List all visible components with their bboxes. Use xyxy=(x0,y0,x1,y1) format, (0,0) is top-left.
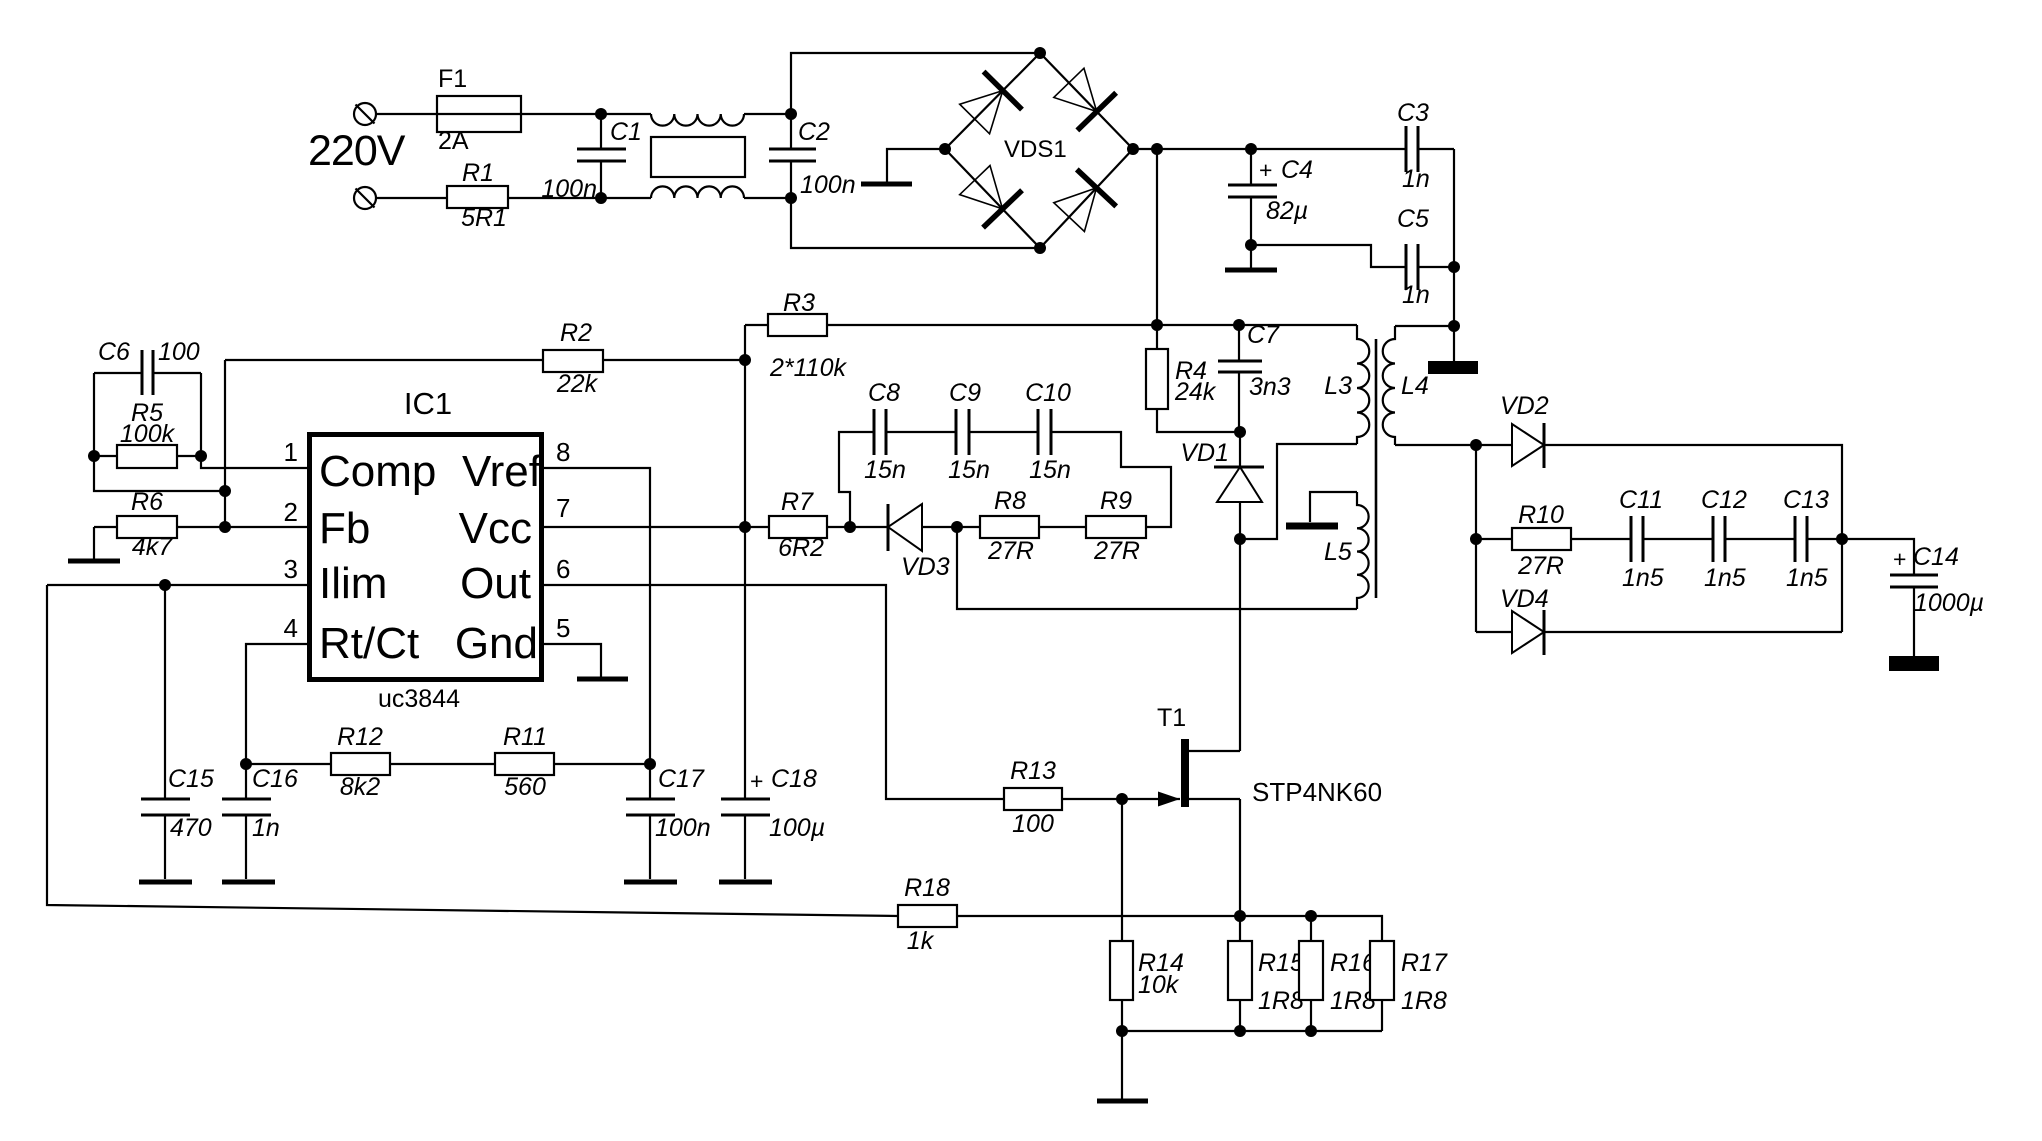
node C7 top xyxy=(1233,319,1245,331)
transformer aux winding L5 xyxy=(1324,492,1369,609)
svg-text:R3: R3 xyxy=(783,289,815,317)
wire pin 3 Ilim xyxy=(47,584,307,586)
common-mode choke winding top xyxy=(651,114,744,126)
wire L4 top to chassis node xyxy=(1395,325,1454,327)
resistor R8 27R xyxy=(957,487,1086,565)
wire C5 junction down to L4 top node xyxy=(1453,267,1455,326)
capacitor C6 100 xyxy=(94,338,201,395)
svg-text:VD4: VD4 xyxy=(1500,585,1549,613)
svg-text:VDS1: VDS1 xyxy=(1004,136,1067,163)
node Fb rail lower xyxy=(219,521,231,533)
svg-text:R13: R13 xyxy=(1010,757,1056,785)
svg-text:R10: R10 xyxy=(1518,501,1564,529)
diode VD2 xyxy=(1476,392,1549,468)
svg-text:27R: 27R xyxy=(1517,552,1564,580)
resistor R10 27R xyxy=(1476,501,1631,580)
svg-text:1R8: 1R8 xyxy=(1258,987,1304,1015)
node bridge top xyxy=(1034,47,1046,59)
svg-text:2: 2 xyxy=(284,497,298,527)
wire C12 to C13 xyxy=(1725,538,1795,540)
node R10 left xyxy=(1470,533,1482,545)
svg-text:C18: C18 xyxy=(771,765,817,793)
wire left rail to Fb junction xyxy=(94,456,225,491)
wire choke to C2 bottom xyxy=(744,197,791,199)
bridge rectifier VDS1 diamond wires xyxy=(945,53,1133,248)
transformer core xyxy=(1375,339,1378,598)
capacitor C1 100n xyxy=(541,114,642,203)
node R5 right xyxy=(195,450,207,462)
wire choke to C2 top xyxy=(744,113,791,115)
diode VD4 xyxy=(1476,585,1842,655)
svg-text:IC1: IC1 xyxy=(404,386,452,421)
svg-text:C4: C4 xyxy=(1281,156,1313,184)
node bridge bottom xyxy=(1034,242,1046,254)
wire pin 4 Rt/Ct xyxy=(246,644,307,764)
wire C8 to C9 xyxy=(886,431,956,433)
capacitor C18 100u electrolytic xyxy=(721,765,825,879)
svg-text:100n: 100n xyxy=(541,175,597,203)
wire Fb vertical rail xyxy=(224,360,226,527)
resistor R6 4k7 xyxy=(94,488,225,561)
svg-text:L5: L5 xyxy=(1324,538,1352,566)
resistor R14 10k xyxy=(1110,799,1184,1031)
wire output node to C14 xyxy=(1842,539,1914,575)
capacitor C15 470 xyxy=(141,585,214,879)
ground at R6 xyxy=(68,527,120,561)
svg-text:1k: 1k xyxy=(907,927,935,955)
resistor R3 2*110k xyxy=(768,289,847,382)
resistor R4 24k xyxy=(1146,325,1240,432)
node C1 bottom xyxy=(595,192,607,204)
svg-text:R1: R1 xyxy=(462,159,494,187)
ground at bridge left node xyxy=(861,149,945,184)
svg-text:15n: 15n xyxy=(864,456,906,484)
svg-text:Gnd: Gnd xyxy=(455,619,538,668)
wire C11 to C12 xyxy=(1643,538,1713,540)
svg-text:100n: 100n xyxy=(655,814,711,842)
node Vref/C17 junction xyxy=(644,758,656,770)
wire C9 to C10 xyxy=(969,431,1038,433)
wire source down to sense node xyxy=(1239,799,1241,916)
common-mode choke core box xyxy=(651,137,745,177)
svg-text:F1: F1 xyxy=(438,65,467,93)
svg-text:15n: 15n xyxy=(1029,456,1071,484)
ground at C17 xyxy=(624,880,677,885)
svg-text:VD1: VD1 xyxy=(1180,439,1229,467)
svg-text:Ilim: Ilim xyxy=(319,559,387,608)
node C2 top xyxy=(785,108,797,120)
wire pin 2 Fb xyxy=(225,526,307,528)
ground at C4 xyxy=(1225,245,1277,270)
wire R7 node up to C8 xyxy=(839,432,874,527)
svg-text:27R: 27R xyxy=(987,537,1034,565)
svg-text:24k: 24k xyxy=(1174,378,1217,406)
resistor R2 22k xyxy=(543,319,603,398)
node C1 top xyxy=(595,108,607,120)
svg-text:R7: R7 xyxy=(781,488,814,516)
svg-text:Vcc: Vcc xyxy=(459,504,532,553)
bridge diode VDS1-c (left to bottom) xyxy=(955,161,1022,227)
resistor R16 1R8 xyxy=(1299,916,1376,1031)
capacitor C8 15n xyxy=(864,379,906,484)
svg-text:STP4NK60: STP4NK60 xyxy=(1252,777,1382,807)
svg-text:560: 560 xyxy=(504,773,546,801)
capacitor C16 1n xyxy=(222,764,298,879)
bridge diode VDS1-d (bottom to right) xyxy=(1049,169,1116,235)
wire VD2 cathode to right rail xyxy=(1544,445,1842,632)
svg-text:100n: 100n xyxy=(800,171,856,199)
svg-text:2*110k: 2*110k xyxy=(769,354,847,382)
svg-text:C11: C11 xyxy=(1619,486,1663,514)
common-mode choke winding bottom xyxy=(651,186,744,198)
capacitor C2 100n xyxy=(769,114,856,199)
capacitor C4 82u electrolytic xyxy=(1228,149,1313,245)
resistor R7 6R2 xyxy=(745,488,850,562)
wire C10 down to R9 right xyxy=(1051,432,1171,527)
svg-text:1n5: 1n5 xyxy=(1622,564,1664,592)
svg-text:C12: C12 xyxy=(1701,486,1747,514)
node Rt/Ct junction xyxy=(240,758,252,770)
svg-text:1000µ: 1000µ xyxy=(1914,589,1984,617)
transformer secondary L4 xyxy=(1383,326,1429,445)
svg-text:R18: R18 xyxy=(904,874,950,902)
capacitor C10 15n xyxy=(1025,379,1071,484)
node bridge left xyxy=(939,143,951,155)
wire bridge DC+ down to R4 xyxy=(1156,149,1158,325)
wire bridge right to C3 xyxy=(1133,148,1406,150)
svg-text:+: + xyxy=(1259,157,1272,183)
svg-text:R15: R15 xyxy=(1258,949,1304,977)
svg-text:C7: C7 xyxy=(1247,321,1280,349)
svg-text:1n: 1n xyxy=(1402,281,1430,309)
ground at C15 xyxy=(139,880,192,885)
svg-text:Out: Out xyxy=(460,559,531,608)
svg-text:R6: R6 xyxy=(131,488,163,516)
capacitor C14 1000u electrolytic xyxy=(1890,543,1984,656)
node output xyxy=(1836,533,1848,545)
svg-text:C14: C14 xyxy=(1913,543,1959,571)
terminal X1 (line input) xyxy=(354,103,376,125)
wire C6 right rail down xyxy=(200,373,202,456)
node R16 top xyxy=(1305,910,1317,922)
svg-text:C3: C3 xyxy=(1397,99,1429,127)
wire R18 right to R17 top xyxy=(957,916,1382,941)
svg-text:C13: C13 xyxy=(1783,486,1829,514)
node DC+ junction xyxy=(1151,143,1163,155)
svg-text:6: 6 xyxy=(556,554,570,584)
svg-text:6R2: 6R2 xyxy=(778,534,824,562)
fuse F1 2A xyxy=(437,65,521,155)
wire R5 right to pin 1 Comp xyxy=(201,456,307,468)
wire Ilim rail down and across to R18 xyxy=(47,585,898,916)
wire C4 bottom to C5 xyxy=(1251,245,1406,267)
wire pin 7 Vcc xyxy=(544,526,745,528)
node rail R15 xyxy=(1234,1025,1246,1037)
svg-text:VD2: VD2 xyxy=(1500,392,1549,420)
svg-text:1R8: 1R8 xyxy=(1401,987,1447,1015)
svg-text:1n5: 1n5 xyxy=(1704,564,1746,592)
wire sense bottom rail xyxy=(1122,1030,1382,1032)
svg-text:8k2: 8k2 xyxy=(340,773,380,801)
wire drain up to VD1 node xyxy=(1239,539,1241,751)
svg-text:5R1: 5R1 xyxy=(461,204,507,232)
node R5 left xyxy=(88,450,100,462)
node C5 right xyxy=(1448,261,1460,273)
wire L5 top to chassis xyxy=(1310,492,1357,522)
svg-text:82µ: 82µ xyxy=(1266,197,1308,225)
svg-text:100µ: 100µ xyxy=(769,814,825,842)
svg-text:3: 3 xyxy=(284,554,298,584)
svg-text:2A: 2A xyxy=(438,127,469,155)
node bridge right xyxy=(1127,143,1139,155)
node pin3 / C15 xyxy=(159,579,171,591)
op-amp controller IC1 uc3844 xyxy=(284,386,571,713)
chassis ground at L5 top xyxy=(1286,523,1338,530)
svg-text:R2: R2 xyxy=(560,319,592,347)
node L4 top xyxy=(1448,320,1460,332)
chassis ground at C14 xyxy=(1889,656,1939,671)
capacitor C9 15n xyxy=(948,379,990,484)
wire bottom input rail xyxy=(376,197,601,199)
wire pin 6 Out to R13 xyxy=(544,585,1004,799)
svg-text:1n5: 1n5 xyxy=(1786,564,1828,592)
svg-text:C16: C16 xyxy=(252,765,298,793)
wire HV rail R3 to L3 top xyxy=(745,324,1357,326)
ground at C16 xyxy=(222,880,275,885)
transistor T1 STP4NK60 xyxy=(1157,704,1382,807)
transformer primary L3 xyxy=(1324,325,1369,444)
svg-text:C17: C17 xyxy=(658,765,705,793)
wire R2 left xyxy=(225,359,543,361)
capacitor C11 1n5 xyxy=(1619,486,1664,592)
svg-text:C6: C6 xyxy=(98,338,130,366)
resistor R18 1k xyxy=(898,874,957,955)
svg-text:220V: 220V xyxy=(308,127,406,175)
node Fb rail upper xyxy=(219,485,231,497)
svg-text:8: 8 xyxy=(556,437,570,467)
node Vcc rail / R2 xyxy=(739,354,751,366)
svg-text:L3: L3 xyxy=(1324,372,1352,400)
resistor R12 8k2 xyxy=(246,723,495,801)
node VD1 anode / drain xyxy=(1234,533,1246,545)
svg-text:T1: T1 xyxy=(1157,704,1186,732)
svg-text:27R: 27R xyxy=(1093,537,1140,565)
ground at pin 5 xyxy=(577,677,628,682)
terminal X2 (neutral input) xyxy=(354,187,376,209)
wire top input rail xyxy=(376,113,601,115)
capacitor C5 1n xyxy=(1397,205,1454,309)
wire Vcc vertical rail to C18 xyxy=(744,325,746,799)
wire C2 bottom to bridge AC2 xyxy=(791,198,1040,248)
node R7 right xyxy=(844,521,856,533)
svg-text:VD3: VD3 xyxy=(901,553,950,581)
svg-text:1n: 1n xyxy=(252,814,280,842)
svg-text:3n3: 3n3 xyxy=(1249,373,1291,401)
svg-text:C1: C1 xyxy=(610,118,642,146)
node source / R15 xyxy=(1234,910,1246,922)
svg-text:470: 470 xyxy=(170,814,212,842)
wire to choke bottom xyxy=(601,197,651,199)
svg-text:C8: C8 xyxy=(868,379,900,407)
resistor R13 100 xyxy=(1004,757,1180,838)
svg-text:100k: 100k xyxy=(120,420,176,448)
capacitor C12 1n5 xyxy=(1701,486,1747,592)
ground at sense rail xyxy=(1097,1031,1148,1101)
node rail R14 xyxy=(1116,1025,1128,1037)
bridge diode VDS1-b (top to right) xyxy=(1049,64,1116,130)
node R4 top xyxy=(1151,319,1163,331)
svg-text:R12: R12 xyxy=(337,723,383,751)
wire pin 8 Vref down to R11/C17 xyxy=(544,468,650,764)
svg-text:C9: C9 xyxy=(949,379,981,407)
node C7 bottom / VD1 cathode xyxy=(1234,426,1246,438)
bridge diode VDS1-a (left to top) xyxy=(955,72,1022,138)
svg-text:100: 100 xyxy=(158,338,200,366)
wire output left rail xyxy=(1475,445,1477,632)
wire L5 bottom to VD3 node xyxy=(957,527,1357,609)
svg-text:4: 4 xyxy=(284,613,298,643)
node rail R16 xyxy=(1305,1025,1317,1037)
capacitor C13 1n5 xyxy=(1783,486,1842,592)
svg-text:+: + xyxy=(1893,546,1906,572)
resistor R9 27R xyxy=(1086,487,1146,565)
svg-text:Comp: Comp xyxy=(319,447,436,496)
resistor R15 1R8 xyxy=(1228,916,1304,1031)
svg-text:5: 5 xyxy=(556,613,570,643)
svg-text:15n: 15n xyxy=(948,456,990,484)
node Vcc pin7 xyxy=(739,521,751,533)
capacitor C17 100n xyxy=(626,764,711,879)
node C4 top xyxy=(1245,143,1257,155)
ground at C18 xyxy=(719,880,772,885)
svg-text:uc3844: uc3844 xyxy=(378,685,460,713)
capacitor C7 3n3 xyxy=(1218,321,1291,432)
svg-text:Vref: Vref xyxy=(462,447,542,496)
diode VD3 xyxy=(850,504,957,581)
wire L3 bottom to drain node xyxy=(1240,444,1357,539)
svg-text:1: 1 xyxy=(284,437,298,467)
svg-text:100: 100 xyxy=(1012,810,1054,838)
wire pin 5 Gnd xyxy=(544,644,601,677)
svg-text:C2: C2 xyxy=(798,118,830,146)
resistor R17 1R8 xyxy=(1370,941,1448,1031)
wire C2 top to bridge AC1 xyxy=(791,53,1040,114)
svg-text:R17: R17 xyxy=(1401,949,1448,977)
svg-text:R8: R8 xyxy=(994,487,1026,515)
svg-text:R11: R11 xyxy=(503,723,547,751)
svg-text:C10: C10 xyxy=(1025,379,1071,407)
svg-text:C15: C15 xyxy=(168,765,214,793)
svg-text:L4: L4 xyxy=(1401,372,1429,400)
svg-text:Rt/Ct: Rt/Ct xyxy=(319,619,419,668)
chassis ground below L4 top node xyxy=(1428,326,1478,374)
resistor R11 560 xyxy=(495,723,650,801)
node C4 bottom xyxy=(1245,239,1257,251)
svg-text:R9: R9 xyxy=(1100,487,1132,515)
svg-text:10k: 10k xyxy=(1138,971,1180,999)
svg-text:+: + xyxy=(750,768,763,794)
node gate / R14 xyxy=(1116,793,1128,805)
svg-text:22k: 22k xyxy=(556,370,599,398)
resistor R5 100k xyxy=(94,399,201,468)
node VD3 anode / L5 xyxy=(951,521,963,533)
wire L4 bottom to VD2 anode xyxy=(1395,444,1476,446)
resistor R1 5R1 xyxy=(447,159,508,232)
node C2 bottom xyxy=(785,192,797,204)
wire C3 right down to C5 right xyxy=(1453,149,1455,267)
wire to choke top xyxy=(601,113,651,115)
svg-text:4k7: 4k7 xyxy=(132,533,173,561)
capacitor C3 1n xyxy=(1397,99,1454,193)
diode VD1 xyxy=(1180,432,1264,539)
svg-text:1n: 1n xyxy=(1402,165,1430,193)
svg-text:C5: C5 xyxy=(1397,205,1429,233)
node VD2 anode xyxy=(1470,439,1482,451)
wire C6 left rail down xyxy=(93,373,95,456)
wire R2 right to Vcc rail xyxy=(603,359,745,361)
svg-text:Fb: Fb xyxy=(319,504,370,553)
svg-text:7: 7 xyxy=(556,493,570,523)
